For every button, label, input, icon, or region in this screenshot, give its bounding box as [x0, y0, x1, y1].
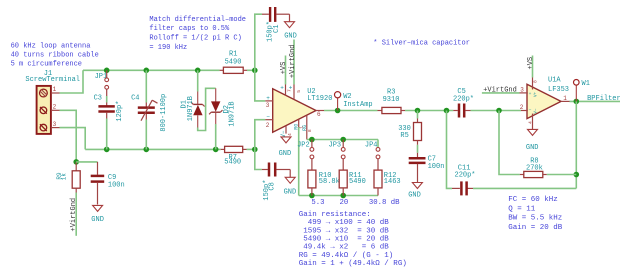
J1 screw 1	[40, 89, 48, 97]
U2 pin 2 -IN	[265, 114, 273, 129]
resistor R7	[221, 146, 247, 166]
svg-text:R1: R1	[229, 51, 237, 59]
svg-text:LT1920: LT1920	[307, 95, 332, 103]
svg-text:+VS: +VS	[280, 62, 288, 75]
svg-text:+: +	[266, 95, 270, 102]
wire J1 pin2 down to R9 node	[60, 110, 77, 162]
wire JP1 to C3	[106, 96, 108, 103]
wire gain top bus	[307, 139, 378, 141]
wire R9 to +VirtGnd net	[75, 193, 77, 236]
node junction R5	[415, 108, 421, 114]
svg-text:9310: 9310	[383, 96, 400, 104]
svg-text:+VirtGnd: +VirtGnd	[483, 86, 517, 94]
capacitor C7	[409, 153, 445, 182]
resistor R5	[398, 119, 421, 145]
svg-text:R5: R5	[400, 132, 408, 140]
wire bottom rail	[85, 148, 221, 150]
diode D2 1N971B zener	[209, 88, 236, 126]
node junction bottom rail tee	[252, 147, 258, 153]
svg-text:Q = 11: Q = 11	[508, 206, 536, 214]
svg-text:JP3: JP3	[329, 142, 342, 150]
U2 pin 5 REF top	[289, 85, 302, 100]
svg-text:GND: GND	[284, 189, 297, 197]
U1A pin 2	[520, 104, 528, 111]
wire top tee to U2 +input	[255, 70, 265, 101]
svg-text:Match differential–mode: Match differential–mode	[149, 16, 246, 24]
svg-text:49.4k → x2 = 6 dB: 49.4k → x2 = 6 dB	[299, 244, 390, 252]
wire bottom tee to U2 -input	[255, 120, 265, 150]
svg-text:C1: C1	[273, 25, 281, 33]
svg-text:100n: 100n	[108, 181, 125, 189]
svg-text:2: 2	[266, 122, 270, 129]
svg-text:3: 3	[53, 121, 57, 128]
wire bottom rail right of R7	[247, 148, 255, 150]
svg-text:+VirtGnd: +VirtGnd	[289, 44, 297, 78]
wire U1A output to BPFilter edge	[570, 100, 620, 102]
svg-text:3: 3	[520, 87, 524, 94]
ground symbol below C7	[408, 183, 422, 200]
wire top rail to D1	[197, 70, 199, 91]
svg-text:FC = 60 kHz: FC = 60 kHz	[508, 196, 558, 204]
svg-text:1: 1	[563, 95, 567, 102]
svg-text:5490 → x10 = 20 dB: 5490 → x10 = 20 dB	[299, 236, 390, 244]
node junction bottom rail D2	[213, 147, 219, 153]
node junction top rail JP1	[104, 68, 110, 74]
svg-text:RG = 49.4kΩ / (G - 1): RG = 49.4kΩ / (G - 1)	[299, 252, 394, 260]
wire R9 node to C9	[76, 161, 97, 163]
U2 pin 4 V- bottom	[280, 126, 293, 138]
resistor R12	[374, 170, 401, 195]
jumper JP1	[95, 70, 109, 96]
svg-text:30.8 dB: 30.8 dB	[369, 199, 400, 207]
svg-text:V+: V+	[535, 91, 539, 97]
jumper JP3	[329, 140, 346, 171]
capacitor C8	[262, 163, 290, 201]
svg-text:1k: 1k	[60, 173, 67, 181]
svg-text:+VS: +VS	[527, 57, 535, 70]
note: antenna annotation	[11, 42, 99, 68]
node junction top rail D1	[195, 68, 201, 74]
svg-text:220p*: 220p*	[453, 96, 474, 104]
note: gain dB row	[311, 199, 400, 207]
resistor R3	[378, 89, 406, 114]
svg-text:ScrewTerminal: ScrewTerminal	[25, 76, 80, 84]
ground symbol below U1A	[526, 129, 539, 151]
wire top rail	[83, 69, 220, 71]
node junction output	[574, 99, 580, 105]
wire J1 pin1 to top rail	[60, 70, 84, 93]
svg-text:JP2: JP2	[297, 141, 310, 149]
J1 pin 3	[51, 121, 60, 128]
svg-text:Rolloff = 1/(2 pi R C): Rolloff = 1/(2 pi R C)	[149, 34, 241, 42]
svg-text:+VirtGnd: +VirtGnd	[70, 198, 78, 232]
note: filter parameters annotation	[508, 196, 563, 232]
ground symbol below C9	[91, 205, 104, 224]
node junction bottom rail C3	[104, 147, 110, 153]
svg-text:8: 8	[307, 129, 313, 132]
capacitor C11	[452, 165, 476, 196]
wire C4 to bottom rail	[145, 120, 147, 150]
svg-text:1463: 1463	[384, 178, 401, 186]
svg-text:−: −	[266, 114, 270, 121]
node junction bottom rail C4	[144, 147, 150, 153]
ground symbol below C1	[284, 14, 297, 40]
svg-text:BW = 5.5 kHz: BW = 5.5 kHz	[508, 215, 562, 223]
svg-text:4: 4	[287, 133, 293, 136]
resistor R10	[308, 170, 340, 195]
svg-text:5 m circumference: 5 m circumference	[11, 60, 82, 68]
op-amp U1A LF353	[527, 76, 569, 118]
svg-text:120p*: 120p*	[116, 101, 124, 122]
U2 pin 7 V+ top	[280, 84, 292, 95]
wire C5 to U1A	[471, 110, 522, 112]
wire RG pin1 down to gain bus	[298, 127, 300, 196]
wire gain bottom bus	[299, 195, 378, 197]
capacitor C9	[91, 162, 125, 205]
resistor R11	[339, 170, 366, 195]
svg-text:8: 8	[533, 80, 539, 83]
resistor R9	[56, 162, 80, 193]
testpoint W2 InstAmp	[335, 92, 373, 111]
capacitor C1	[262, 7, 290, 42]
svg-text:Gain = 1 + (49.4kΩ / RG): Gain = 1 + (49.4kΩ / RG)	[299, 260, 407, 268]
svg-text:BPFilter: BPFilter	[587, 95, 620, 103]
svg-text:3: 3	[266, 102, 270, 109]
node junction U1A inverting	[496, 108, 502, 114]
node junction C11 feedback	[444, 108, 450, 114]
svg-text:5.3: 5.3	[311, 199, 324, 207]
svg-text:1595 → x32 = 30 dB: 1595 → x32 = 30 dB	[299, 227, 390, 235]
svg-text:GND: GND	[284, 32, 297, 40]
wire feedback bottom to C11	[473, 187, 576, 189]
svg-text:* Silver–mica capacitor: * Silver–mica capacitor	[373, 39, 470, 47]
wire +VirtGnd net to U1A pin3	[482, 92, 520, 94]
svg-text:499 → x100 = 40 dB: 499 → x100 = 40 dB	[299, 219, 390, 227]
wire R8 to output node	[547, 174, 577, 176]
wire top rail right of R1	[247, 69, 255, 71]
svg-text:Gain = 20 dB: Gain = 20 dB	[508, 224, 563, 232]
svg-text:58.8k: 58.8k	[319, 178, 340, 186]
svg-text:100n: 100n	[428, 163, 445, 171]
wire J1 pin3 down to bottom rail	[60, 128, 86, 150]
node junction top bus JP2	[309, 137, 315, 143]
svg-text:1N971B: 1N971B	[187, 96, 195, 121]
wire U2 output to R3	[324, 110, 378, 112]
wire C3 to bottom rail	[106, 119, 108, 150]
wire JP4 drop	[377, 140, 379, 148]
capacitor C5	[453, 88, 474, 117]
svg-text:GND: GND	[279, 150, 292, 158]
ground symbol below U2	[279, 137, 292, 158]
svg-text:40 turns ribbon cable: 40 turns ribbon cable	[11, 51, 99, 59]
svg-text:= 190 kHz: = 190 kHz	[149, 44, 187, 52]
node junction top rail C4	[144, 68, 150, 74]
wire +VS to U2 pin7	[285, 56, 287, 85]
svg-text:filter caps to 0.5%: filter caps to 0.5%	[149, 25, 230, 33]
svg-text:W1: W1	[582, 80, 590, 88]
node junction top bus JP3	[340, 137, 346, 143]
svg-text:1: 1	[53, 86, 57, 93]
svg-text:5490: 5490	[349, 178, 366, 186]
svg-text:2: 2	[53, 104, 57, 111]
svg-text:20: 20	[340, 199, 349, 207]
svg-text:C8: C8	[268, 182, 276, 190]
op-amp U2 LT1920	[273, 88, 333, 132]
wire C11 to main line node	[447, 111, 453, 189]
svg-text:+: +	[529, 92, 532, 97]
svg-text:GND: GND	[526, 144, 539, 152]
resistor R8	[520, 157, 547, 177]
J1 pin 2	[51, 104, 60, 111]
svg-text:220p*: 220p*	[455, 172, 476, 180]
svg-text:C4: C4	[131, 95, 139, 103]
resistor R1	[220, 51, 247, 74]
wire D1 anode to D2 anode	[198, 88, 216, 130]
wire +VirtGnd to U2 pin5	[293, 40, 295, 85]
wire top rail to C4	[145, 70, 147, 102]
svg-text:W2: W2	[343, 93, 351, 101]
testpoint W1	[574, 80, 590, 102]
U1A pin 4 V-	[528, 114, 534, 130]
note: gain resistance table	[299, 211, 407, 268]
jumper JP4	[365, 142, 380, 171]
svg-text:5: 5	[296, 90, 302, 93]
svg-text:V−: V−	[535, 108, 539, 114]
svg-text:6: 6	[317, 111, 321, 118]
wire D2 cathode to bottom rail	[215, 124, 217, 149]
wire top tee to C1	[255, 14, 262, 70]
svg-text:GND: GND	[91, 216, 104, 224]
wire R5 to C7	[417, 145, 419, 153]
node junction W2	[335, 108, 341, 114]
node junction bottom bus R11	[340, 193, 346, 199]
J1 screw 3	[40, 124, 47, 131]
jumper JP2	[297, 140, 314, 171]
note: filter matching annotation	[149, 16, 246, 52]
svg-text:Gain resistance:: Gain resistance:	[299, 211, 371, 219]
U2 pin 6 output	[316, 111, 324, 119]
svg-text:+: +	[289, 85, 293, 92]
wire U1A pin2 down to R8	[499, 111, 520, 175]
svg-text:2: 2	[520, 104, 524, 111]
U2 pin 8 RG bottom	[302, 115, 313, 139]
U2 pin 1 RG bottom	[293, 119, 304, 129]
svg-text:JP4: JP4	[365, 142, 378, 150]
svg-text:U1A: U1A	[548, 76, 561, 84]
node junction R8 output side	[574, 172, 580, 178]
svg-text:60 kHz loop antenna: 60 kHz loop antenna	[11, 42, 91, 50]
node junction top rail tee	[252, 68, 258, 74]
wire R5 drop	[417, 111, 419, 119]
svg-text:LF353: LF353	[548, 86, 569, 94]
capacitor C3	[94, 95, 125, 122]
svg-text:5490: 5490	[225, 58, 242, 66]
svg-text:+: +	[280, 84, 284, 91]
svg-text:1N971B: 1N971B	[228, 101, 236, 126]
U1A pin 1 output	[561, 95, 570, 102]
svg-text:5490: 5490	[224, 159, 241, 167]
wire output down to feedback	[575, 101, 577, 188]
svg-text:800-1100p: 800-1100p	[160, 94, 168, 132]
U2 pin 3 +IN	[265, 95, 273, 109]
node junction R9 C9	[73, 159, 79, 165]
svg-text:C3: C3	[94, 95, 102, 103]
wire +VS to U1A pin8	[532, 56, 534, 78]
svg-text:GND: GND	[408, 191, 421, 199]
U1A pin 3	[520, 87, 528, 94]
svg-text:4: 4	[528, 121, 534, 124]
node junction bottom bus R10	[309, 193, 315, 199]
capacitor C4 variable	[131, 94, 168, 132]
ground symbol below C8	[284, 170, 297, 197]
diode D1 1N971B zener	[181, 92, 205, 128]
J1 screw 2	[40, 107, 47, 114]
wire R3 to C5	[405, 110, 453, 112]
U1A pin 8 V+	[533, 78, 539, 90]
svg-text:InstAmp: InstAmp	[343, 101, 372, 109]
J1 pin 1	[51, 86, 60, 93]
svg-text:−: −	[529, 108, 532, 113]
wire bottom tee to C8	[255, 149, 262, 169]
connector J1 ScrewTerminal	[25, 70, 80, 134]
